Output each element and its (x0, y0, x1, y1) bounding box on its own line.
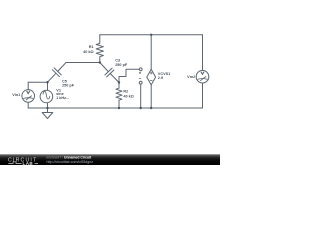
svg-text:250 pF: 250 pF (115, 63, 128, 67)
wire diagonal out of C3 lower to node B (110, 73, 119, 82)
wire V1 top stem (47, 82, 49, 90)
wire Vin1 top stem (27, 82, 29, 90)
svg-text:http://circuitlab.com/c/65dgnz: http://circuitlab.com/c/65dgnz (47, 160, 94, 164)
wire VCVS bottom stem (150, 85, 152, 108)
svg-text:40 kΩ: 40 kΩ (83, 50, 93, 54)
footer bar (0, 154, 220, 165)
svg-text:R2: R2 (123, 90, 128, 94)
wire ground stem (47, 108, 49, 113)
svg-text:LAB: LAB (23, 161, 34, 165)
footer credit line (47, 156, 94, 164)
vcvs U1 dependent source VCVS1 (139, 68, 156, 85)
svg-text:R1: R1 (89, 45, 94, 49)
logo CircuitLab (8, 158, 38, 166)
capacitor C5 (52, 68, 61, 77)
wire VCVS top stem (150, 35, 152, 70)
voltmeter Vin1 (22, 90, 35, 103)
svg-text:Vm2: Vm2 (187, 75, 195, 79)
wire Vm2 bottom stem (202, 83, 204, 108)
svg-text:1 kHz...: 1 kHz... (56, 96, 69, 100)
svg-text:250 pF: 250 pF (62, 84, 75, 88)
resistor R1 (96, 35, 103, 63)
node dot top rail VCVS (150, 34, 152, 36)
wire bottom rail (28, 107, 202, 109)
node dot VCVS bottom (150, 107, 152, 109)
svg-text:Vin1: Vin1 (12, 93, 20, 97)
node dot VCVS minus bottom (140, 107, 142, 109)
wire top-left horizontal (28, 81, 47, 83)
wire top rail (100, 34, 203, 36)
wire right side down to Vm2 (202, 35, 204, 71)
wire diagonal from node A into C3 upper (100, 63, 109, 72)
sine source V1 (40, 90, 53, 103)
capacitor C3 (105, 68, 114, 77)
wire V1 bottom stem (47, 103, 49, 108)
wire staircase node B to VCVS plus input (119, 69, 139, 82)
node dot A (99, 61, 101, 63)
svg-text:2.9: 2.9 (158, 76, 163, 80)
wire VCVS minus input down (140, 84, 142, 108)
resistor R2 (116, 83, 122, 109)
node dot V1 top junction (46, 81, 48, 83)
voltmeter Vm2 (196, 70, 209, 83)
node dot ground junction (46, 107, 48, 109)
ground (42, 113, 53, 119)
wire diagonal out of C5 upper then horizontal to node A (58, 63, 100, 72)
svg-text:40 kΩ: 40 kΩ (123, 94, 133, 98)
wire Vin1 bottom stem (27, 102, 29, 108)
node dot B (118, 81, 120, 83)
node dot R2 bottom (118, 107, 120, 109)
wire diagonal into C5 lower (48, 73, 56, 82)
